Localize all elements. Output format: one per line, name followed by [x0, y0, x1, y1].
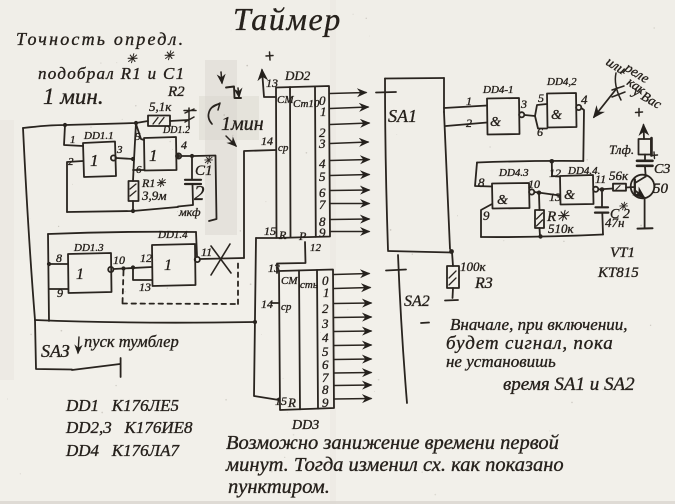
- svg-text:Вначале, при включении,: Вначале, при включении,: [450, 315, 628, 334]
- wire C3 to Тлф: [644, 155, 646, 161]
- wire pin10 to DD1.4: [114, 267, 153, 269]
- svg-text:5: 5: [319, 169, 326, 184]
- counter DD3 body: [279, 270, 334, 411]
- svg-text:пунктиром.: пунктиром.: [228, 476, 330, 498]
- wire pin13 branch: [133, 268, 152, 281]
- svg-text:3: 3: [116, 144, 123, 156]
- wire DD2 arrow 7: [330, 203, 369, 205]
- wire feedback drop to pin11: [196, 232, 197, 256]
- svg-text:С3: С3: [654, 162, 670, 177]
- gate DD4.3: [492, 183, 530, 209]
- arrow to clock wire: [226, 136, 236, 146]
- svg-text:15: 15: [264, 224, 276, 238]
- svg-text:&: &: [564, 188, 575, 203]
- pin 3 output bubble DD4.1: [519, 112, 524, 117]
- svg-text:DD1.1: DD1.1: [83, 130, 114, 142]
- node junction R* top: [537, 191, 541, 195]
- svg-text:6: 6: [136, 164, 142, 176]
- svg-text:Точность опредл.: Точность опредл.: [16, 29, 185, 49]
- svg-text:11: 11: [595, 172, 606, 186]
- gate DD1.1: [83, 142, 116, 178]
- wire split to pin5: [535, 104, 547, 116]
- svg-text:5: 5: [538, 91, 544, 105]
- node junction pin13 branch: [131, 265, 135, 269]
- capacitor C3: [637, 160, 653, 163]
- wire DD2 arrow 8: [330, 218, 369, 221]
- wire pin4 down to tone generator: [581, 108, 584, 161]
- wire pin14 stub DD3: [271, 302, 279, 304]
- svg-text:5,1к: 5,1к: [149, 99, 172, 114]
- wire pin3 to DD4.2 inputs: [525, 115, 536, 116]
- arrow down right of Z: [238, 88, 239, 97]
- svg-text:R2: R2: [167, 84, 185, 100]
- arrow down left of Z: [221, 72, 222, 83]
- node junction top rail to vertical: [134, 121, 138, 125]
- svg-text:4: 4: [322, 330, 329, 345]
- wire SA1 common vertical: [444, 112, 450, 249]
- svg-text:510к: 510к: [548, 221, 575, 236]
- svg-text:14: 14: [261, 297, 273, 311]
- wire DD3 arrow 6: [334, 358, 371, 361]
- svg-text:Таймер: Таймер: [233, 1, 342, 37]
- wire C1 bottom lead: [178, 185, 193, 207]
- switch SA2 left edge: [398, 255, 407, 403]
- symbol crossed arrow at R2: [184, 108, 196, 127]
- svg-text:11: 11: [201, 245, 212, 259]
- arrow пуск: [78, 337, 79, 353]
- svg-text:2: 2: [194, 181, 205, 205]
- wire DD3 arrow 1: [334, 288, 370, 289]
- wire DD2 arrow 9: [330, 231, 369, 233]
- tick SA1 top: [376, 91, 396, 94]
- svg-text:КТ815: КТ815: [597, 265, 639, 281]
- ground emitter: [638, 227, 653, 229]
- pin 4 output bubble DD1.2: [176, 153, 181, 158]
- gate DD1.4: [152, 244, 196, 286]
- supply arrow above Тлф: [643, 125, 646, 139]
- svg-text:1: 1: [90, 151, 99, 170]
- curved arrow: [208, 104, 219, 124]
- capacitor C1 plates: [185, 179, 201, 181]
- svg-text:8: 8: [56, 251, 62, 265]
- svg-text:12: 12: [140, 251, 152, 265]
- svg-text:1: 1: [323, 285, 330, 300]
- svg-text:2: 2: [466, 116, 472, 130]
- wire pin3 to node B: [116, 158, 133, 159]
- svg-text:подобрал R1 и С1: подобрал R1 и С1: [38, 64, 185, 83]
- svg-text:1: 1: [320, 104, 327, 119]
- svg-text:50: 50: [653, 181, 669, 197]
- node junction base/C2: [600, 187, 605, 192]
- svg-text:1 мин.: 1 мин.: [43, 84, 104, 109]
- wire DD3 arrow 7: [334, 372, 371, 375]
- svg-text:4: 4: [581, 92, 588, 107]
- svg-text:DD1 К176ЛЕ5: DD1 К176ЛЕ5: [65, 396, 179, 415]
- plus supply: [636, 109, 643, 117]
- gate DD4.4: [560, 175, 594, 205]
- gate DD4.1: [487, 98, 520, 135]
- wire oscillator2 left vertical: [48, 234, 49, 321]
- arrow from note to pin4 wire: [594, 88, 617, 117]
- wire DD3 arrow 4: [334, 330, 371, 333]
- symbol Z 1 min annotation: [226, 87, 241, 99]
- gate DD1.2: [144, 137, 177, 171]
- tick R3 bottom: [445, 299, 458, 302]
- switch SA3 contact bar: [120, 358, 122, 377]
- svg-text:время SА1 и SА2: время SА1 и SА2: [503, 374, 635, 395]
- wire pin2 loop of DD1.1: [67, 161, 83, 212]
- pin 10 output bubble DD4.3: [529, 189, 534, 194]
- switch SA3 lever: [72, 364, 120, 370]
- svg-text:10: 10: [113, 253, 125, 267]
- svg-text:4: 4: [181, 138, 187, 152]
- svg-text:3: 3: [520, 97, 527, 111]
- svg-text:DD1.3: DD1.3: [73, 242, 104, 254]
- resistor 56к: [613, 184, 626, 191]
- svg-text:СМ: СМ: [281, 275, 298, 287]
- svg-text:не установишь: не установишь: [446, 352, 556, 371]
- svg-text:15: 15: [275, 394, 287, 408]
- switch SA1 body: [385, 77, 444, 80]
- svg-text:1: 1: [149, 146, 158, 165]
- svg-text:✳: ✳: [163, 48, 175, 63]
- svg-text:9: 9: [322, 395, 329, 410]
- wire DD3 arrow 8: [334, 384, 371, 387]
- plus mark C3: [651, 152, 658, 159]
- wire DD2 arrow 5: [330, 175, 369, 176]
- node junction SA3 rail / R vertical: [253, 320, 257, 324]
- svg-text:13: 13: [549, 190, 561, 204]
- svg-text:SА2: SА2: [404, 293, 430, 310]
- wire pin8 of DD1.3: [49, 263, 68, 265]
- svg-text:VТ1: VТ1: [610, 245, 635, 261]
- counter DD2 body: [276, 86, 330, 238]
- strike mark: [612, 73, 625, 100]
- dash mark near SA2: [421, 322, 429, 325]
- wire bottom rail tone generator: [481, 235, 603, 238]
- svg-text:3: 3: [318, 136, 326, 151]
- wire dashed mod horizontal: [123, 303, 239, 306]
- wire R vertical to DD3: [254, 238, 279, 400]
- resistor R* 510к: [538, 194, 541, 210]
- wire oscillator2 feedback top: [48, 232, 196, 234]
- wire DD3 arrow 2: [334, 302, 371, 305]
- svg-text:9: 9: [483, 208, 490, 223]
- svg-text:12: 12: [310, 242, 322, 254]
- wire left vertical: [23, 128, 35, 320]
- wire pin11 to node: [598, 188, 613, 191]
- svg-text:1: 1: [76, 266, 84, 283]
- svg-text:9: 9: [57, 286, 63, 300]
- svg-text:14: 14: [261, 134, 273, 148]
- svg-text:пуск тумблер: пуск тумблер: [84, 332, 179, 351]
- wire SA1 bottom rail: [388, 251, 452, 253]
- wire vertical node B: [133, 123, 136, 181]
- wire collector up: [644, 167, 647, 177]
- capacitor C1 outline: [194, 156, 217, 222]
- svg-text:DD4,2: DD4,2: [546, 76, 577, 88]
- wire DD2 carry P to DD3: [277, 242, 306, 273]
- svg-text:DD2,3 К176ИЕ8: DD2,3 К176ИЕ8: [65, 418, 193, 437]
- svg-text:3: 3: [321, 316, 329, 331]
- svg-text:100к: 100к: [460, 259, 487, 274]
- node junction pin12 tap: [550, 159, 555, 164]
- wire DD2 arrow 2: [330, 123, 369, 125]
- node junction pin8: [47, 262, 51, 266]
- wire pin4 to node C1: [181, 155, 192, 157]
- wire SA1 to pin1 DD4.1: [444, 106, 487, 109]
- svg-text:Возможно занижение времени пер: Возможно занижение времени первой: [226, 432, 560, 454]
- node junction R* bottom: [538, 234, 542, 238]
- wire pin6 of DD1.2: [133, 169, 144, 171]
- svg-text:СМ: СМ: [277, 94, 294, 106]
- svg-text:13: 13: [139, 280, 151, 294]
- gate DD4.2: [547, 93, 577, 128]
- svg-text:13: 13: [268, 261, 280, 275]
- pin 11 output bubble DD1.4: [195, 257, 200, 262]
- pin 3 output bubble DD1.1: [111, 155, 116, 160]
- wire pin9 to bottom rail: [481, 204, 492, 237]
- svg-text:DD4.3: DD4.3: [498, 167, 529, 179]
- wire split to pin6: [535, 116, 547, 129]
- wire dashed mod vertical right: [237, 260, 239, 304]
- resistor R3: [452, 252, 453, 266]
- svg-text:&: &: [551, 108, 562, 123]
- wire C1 top lead: [191, 156, 193, 179]
- svg-text:1мин: 1мин: [221, 113, 264, 135]
- svg-text:6: 6: [537, 125, 543, 139]
- wire pin9 of DD1.3: [49, 288, 68, 290]
- wire DD3 arrow 0: [334, 274, 369, 275]
- svg-text:сть: сть: [300, 279, 318, 291]
- svg-text:8: 8: [478, 175, 485, 190]
- supply arrow +: [262, 70, 276, 97]
- wire DD2 arrow 6: [330, 189, 369, 192]
- svg-text:R: R: [287, 395, 296, 410]
- svg-text:R3: R3: [474, 275, 493, 292]
- symbol X cross-out: [211, 244, 231, 275]
- node junction SA1/SA2/R3: [449, 249, 454, 254]
- wire SA3 horizontal rail: [35, 320, 256, 323]
- svg-text:DD4-1: DD4-1: [482, 84, 514, 96]
- svg-text:DD1.2: DD1.2: [162, 125, 190, 136]
- svg-text:DD1.4: DD1.4: [157, 229, 188, 241]
- node junction pin4: [176, 154, 180, 158]
- pin 11 output bubble DD4.4: [593, 187, 598, 192]
- svg-text:10: 10: [528, 177, 540, 191]
- svg-text:DD4 К176ЛА7: DD4 К176ЛА7: [65, 441, 180, 460]
- svg-text:мкф: мкф: [178, 205, 201, 219]
- wire pin12 DD4.4 from top rail: [552, 161, 560, 176]
- svg-text:DD3: DD3: [291, 418, 319, 433]
- wire bottom rail oscillator1: [67, 207, 178, 212]
- svg-text:будет сигнал, пока: будет сигнал, пока: [446, 333, 614, 354]
- wire pin10 to pin13 DD4.4: [534, 192, 560, 196]
- svg-text:✳: ✳: [203, 155, 213, 167]
- svg-text:&: &: [497, 193, 508, 208]
- svg-text:1: 1: [466, 94, 472, 108]
- node junction pin3/vertical: [131, 157, 135, 161]
- wire DD2 arrow 1: [330, 107, 368, 109]
- speaker Тлф: [639, 139, 652, 155]
- svg-text:2: 2: [322, 301, 329, 316]
- node junction bottom rail / R1: [131, 209, 135, 213]
- node junction C1 top: [190, 154, 194, 158]
- svg-text:13: 13: [266, 76, 278, 90]
- svg-text:47н: 47н: [605, 215, 624, 230]
- svg-text:✳: ✳: [126, 51, 138, 66]
- node junction top-left of DD1.1 pin1: [63, 123, 67, 127]
- transistor VT1: [631, 175, 655, 199]
- svg-text:1: 1: [70, 134, 76, 146]
- gate DD1.3: [68, 253, 112, 293]
- wire pin5 of DD1.2: [136, 124, 144, 140]
- node junction dashed tap: [121, 266, 125, 270]
- wire DD2 arrow 4: [330, 160, 369, 161]
- wire DD3 arrow 5: [334, 344, 371, 347]
- tick SA2 top: [386, 270, 406, 271]
- wire DD2 R stub: [256, 237, 276, 239]
- wire to base VT1: [626, 186, 635, 189]
- svg-text:Р: Р: [298, 229, 307, 243]
- resistor R1: [129, 181, 139, 201]
- wire DD2 arrow 0: [330, 93, 366, 94]
- wire pin11 to clock vertical: [200, 258, 244, 259]
- pin 10 output bubble DD1.3: [108, 267, 113, 272]
- wire SA1 to pin2 DD4.1: [446, 123, 487, 127]
- wire dashed mod vertical left: [123, 271, 124, 303]
- wire top rail: [23, 121, 148, 128]
- wire R1 bottom: [132, 201, 134, 211]
- svg-text:Тлф.: Тлф.: [609, 142, 634, 157]
- svg-text:3,9м: 3,9м: [141, 188, 167, 203]
- svg-text:DD2: DD2: [284, 68, 311, 83]
- svg-text:Ст10: Ст10: [293, 98, 320, 110]
- svg-text:&: &: [490, 115, 501, 130]
- wire pin1 of DD1.1: [64, 125, 83, 146]
- wire emitter down: [644, 198, 646, 228]
- capacitor C2: [601, 192, 603, 207]
- wire DD3 arrow 3: [334, 316, 371, 319]
- svg-text:7: 7: [319, 197, 326, 212]
- svg-text:SАЗ: SАЗ: [41, 341, 70, 361]
- resistor R2: [148, 116, 170, 127]
- wire to pin8 DD4.3: [475, 163, 492, 187]
- svg-text:✳: ✳: [618, 201, 628, 213]
- wire R2 right lead: [170, 120, 188, 121]
- wire top rail tone generator: [477, 161, 583, 163]
- svg-text:1: 1: [164, 257, 172, 274]
- svg-text:минут. Тогда изменил сх. как п: минут. Тогда изменил сх. как показано: [225, 454, 564, 476]
- svg-text:ср: ср: [281, 301, 292, 313]
- pin 4 output bubble DD4.2: [576, 105, 581, 110]
- svg-text:56к: 56к: [609, 168, 629, 183]
- svg-text:SА1: SА1: [388, 106, 417, 126]
- svg-text:9: 9: [319, 225, 326, 240]
- wire DD3 arrow 9: [334, 398, 371, 401]
- svg-text:ср: ср: [278, 142, 289, 154]
- wire clock vertical to DD2 cp: [244, 150, 276, 258]
- svg-text:5: 5: [135, 131, 141, 143]
- wire DD2 arrow 3: [330, 142, 368, 144]
- wire SA3 left drop: [35, 320, 72, 370]
- svg-text:R: R: [278, 228, 287, 242]
